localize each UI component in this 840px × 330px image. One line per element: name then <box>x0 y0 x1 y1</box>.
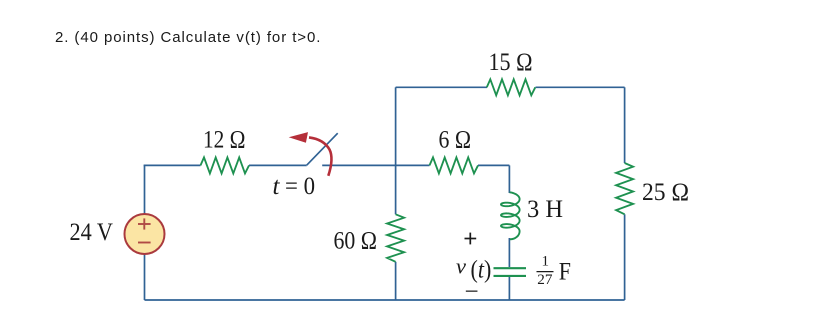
svg-text:v: v <box>456 254 466 279</box>
inductor L 3H coil <box>501 192 520 239</box>
resistor R 12-ohm zigzag <box>201 157 250 173</box>
svg-text:3 H: 3 H <box>527 196 563 223</box>
capacitor C top plate <box>494 267 527 269</box>
resistor R 25-ohm zigzag <box>616 163 633 214</box>
fraction bar <box>537 271 554 273</box>
wire: coil down to capacitor top plate <box>508 238 510 267</box>
switch arc arrow (red) <box>309 137 331 175</box>
svg-text:27: 27 <box>537 272 553 288</box>
wire: 6-ohm resistor to inductor branch corner <box>478 164 509 166</box>
wire: left vertical bottom (source to bottom wire) <box>144 254 146 300</box>
wire: middle node to 6-ohm resistor <box>396 164 430 166</box>
wire: right vertical lower (25-ohm down to bottom wire) <box>624 214 626 300</box>
wire: 15-ohm resistor to top-right corner <box>536 86 625 88</box>
svg-text:t: t <box>273 173 281 200</box>
wire: 60-ohm resistor down to bottom wire <box>395 262 397 300</box>
svg-text:−: − <box>465 279 479 306</box>
wire: switch stationary contact to middle node <box>322 164 395 166</box>
switch blade (open, t=0) <box>307 133 338 165</box>
wire: capacitor bottom plate down to bottom wire <box>508 276 510 300</box>
svg-text:25 Ω: 25 Ω <box>642 179 689 206</box>
svg-text:= 0: = 0 <box>285 173 315 200</box>
wire: left vertical top (source to main wire) <box>144 165 146 214</box>
svg-text:15 Ω: 15 Ω <box>489 49 533 76</box>
wire: middle vertical upper (middle node up to top wire) <box>395 87 397 165</box>
svg-text:1: 1 <box>542 254 550 270</box>
voltage source plus sign <box>138 218 151 229</box>
wire: bottom horizontal <box>145 299 625 301</box>
voltage source minus sign <box>138 242 151 244</box>
resistor R 6-ohm zigzag <box>430 157 479 173</box>
wire: main horizontal from left node to 12-ohm resistor <box>144 164 201 166</box>
wire: top horizontal left segment to 15-ohm resistor <box>396 86 487 88</box>
resistor R 60-ohm zigzag <box>387 214 404 261</box>
wire: middle vertical, main wire down to 60-ohm resistor <box>395 165 397 214</box>
svg-text:6 Ω: 6 Ω <box>439 127 472 154</box>
svg-text:60 Ω: 60 Ω <box>334 228 378 255</box>
wire: right vertical upper (top wire down to 25-ohm) <box>624 87 626 163</box>
svg-text:12 Ω: 12 Ω <box>203 127 246 154</box>
resistor R 15-ohm zigzag <box>487 79 536 95</box>
switch arrowhead <box>289 132 308 143</box>
svg-text:24 V: 24 V <box>70 219 114 246</box>
capacitor C bottom plate <box>494 275 527 277</box>
title text <box>55 29 321 46</box>
capacitor plus polarity <box>465 233 477 245</box>
wire: inductor branch, corner down to coil <box>508 165 510 193</box>
wire: 12-ohm resistor to switch pivot <box>249 164 307 166</box>
voltage source V1 circle <box>125 214 165 254</box>
svg-text:F: F <box>559 258 571 285</box>
